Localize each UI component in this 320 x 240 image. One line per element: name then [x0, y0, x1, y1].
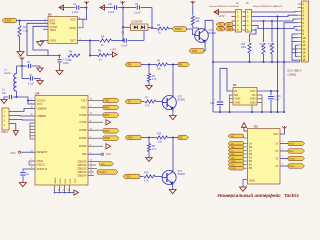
capacitor C11 [100, 7, 113, 9]
capacitor C3 bypass [22, 78, 29, 80]
svg-text:TEST: TEST [75, 177, 77, 183]
ground below R1 [17, 52, 24, 56]
wire VT3 emitter to ground [172, 185, 174, 190]
resistor R2 [157, 63, 168, 66]
net tag CBUS0 [100, 162, 114, 166]
net tag row1 right [178, 62, 190, 67]
wire D5 3Y stub [280, 158, 288, 160]
svg-text:R1: R1 [23, 25, 27, 29]
net tag 4Y [288, 164, 305, 168]
wire X2.9-16 trunk [292, 33, 298, 35]
wire R2 to node [168, 64, 179, 66]
diode D2a [134, 25, 138, 29]
svg-text:DSR: DSR [104, 136, 110, 140]
resistor R14 [271, 21, 273, 42]
wire J5.4 to mid rail [252, 26, 298, 29]
svg-text:D1: D1 [48, 13, 52, 17]
power +17V arrow right [112, 52, 117, 57]
net tag RTS [103, 113, 119, 118]
wire J5.5 stub [252, 29, 257, 31]
net arrow DCD [106, 144, 111, 149]
wire R11 to VT1 collector [193, 28, 199, 30]
connector X2 OBD box [302, 1, 309, 62]
svg-text:DCD#: DCD# [79, 144, 87, 148]
wire D4 bottom ground bus [54, 185, 56, 193]
svg-text:RTS: RTS [104, 113, 109, 117]
svg-text:GND: GND [250, 97, 256, 101]
svg-text:R10: R10 [241, 44, 246, 46]
capacitor C1 [13, 96, 17, 98]
wire J5.2 to X2.4 [252, 15, 298, 16]
net tag row1 mid [125, 62, 141, 67]
capacitor C12 electrolytic [219, 68, 221, 101]
diode pair D2 BAT54 box [131, 24, 149, 31]
svg-text:TXEN: TXEN [175, 27, 182, 31]
net tag 1Y [288, 141, 305, 145]
svg-text:IN: IN [235, 89, 238, 93]
wire D1 THR loop [27, 23, 60, 55]
resistor R6 on OUT line [90, 40, 99, 42]
wire D1 TRIG stub [43, 28, 48, 30]
svg-text:PWREN: PWREN [98, 172, 107, 174]
svg-text:2.2k: 2.2k [23, 29, 29, 33]
svg-text:OUT: OUT [70, 39, 76, 43]
svg-text:CBUS0: CBUS0 [77, 159, 87, 163]
svg-text:1B: 1B [249, 145, 252, 149]
capacitor C13 electrolytic [270, 91, 272, 95]
wire row2 to R15 [141, 137, 157, 139]
net tag K-line drive [169, 28, 173, 30]
svg-text:1: 1 [31, 99, 32, 101]
svg-text:TxD: TxD [104, 99, 109, 103]
svg-text:GND: GND [70, 178, 72, 183]
wire rail D horizontal [213, 111, 284, 113]
net arrow at C11 [100, 5, 105, 10]
ground at VT2 emitter [170, 116, 177, 120]
svg-text:4.7k: 4.7k [144, 180, 149, 183]
svg-text:VCC: VCC [70, 18, 76, 22]
svg-text:DISC: DISC [69, 26, 76, 30]
svg-text:USB-1: USB-1 [1, 132, 8, 134]
power VCC at L1 [20, 57, 24, 61]
svg-text:3: 3 [31, 103, 32, 105]
net arrow shield float [13, 131, 18, 136]
svg-text:GND: GND [249, 179, 255, 183]
wire C6 down to R9 line [151, 8, 153, 29]
IC D4 FT232 box [35, 96, 88, 186]
IC D3 regulator box [233, 88, 257, 106]
svg-text:CBUS4: CBUS4 [77, 173, 87, 177]
node L1 bottom [15, 96, 17, 98]
svg-text:TX2O: TX2O [289, 159, 295, 161]
transistor VT3 [162, 170, 176, 185]
svg-text:TXD: TXD [81, 98, 87, 102]
wire D3 OUT to node [257, 90, 278, 92]
wire VCC node down to D2 anode [122, 8, 124, 41]
svg-text:DTR: DTR [104, 129, 109, 133]
wire branch x284 down [283, 23, 285, 62]
svg-text:GND: GND [50, 39, 56, 43]
ground right of C5 [37, 68, 43, 72]
svg-text:5x5mm PBPS05-17-PGOS-RC: 5x5mm PBPS05-17-PGOS-RC [209, 6, 240, 8]
svg-text:VCC: VCC [106, 153, 111, 156]
svg-text:(J1962): (J1962) [288, 73, 297, 77]
resistor R13 [144, 175, 155, 178]
svg-text:2A: 2A [249, 148, 252, 152]
svg-text:0.1uF: 0.1uF [121, 45, 128, 48]
net tag CBUS2 [97, 170, 118, 174]
svg-text:D4: D4 [36, 91, 40, 95]
power VCC at D5 [280, 131, 285, 135]
svg-text:RX2: RX2 [128, 136, 134, 140]
svg-text:VCC: VCC [273, 132, 279, 136]
wire D4 RXD stub [88, 107, 103, 109]
svg-text:R13: R13 [144, 172, 149, 175]
resistor R1 [19, 21, 21, 26]
svg-text:4nF: 4nF [2, 93, 7, 95]
svg-text:TXD: TXD [192, 49, 197, 53]
wire D2 anode stub [123, 26, 131, 28]
svg-text:100k: 100k [241, 47, 247, 49]
svg-text:13: 13 [302, 47, 305, 51]
svg-text:1.2u: 1.2u [275, 98, 280, 101]
wire row1 to R2 [141, 64, 157, 66]
wire branch x284 to rail D [283, 62, 285, 112]
net tag D5 in0 [228, 134, 244, 138]
power VCC at C11 node [120, 1, 124, 5]
svg-text:RX2O: RX2O [289, 166, 295, 168]
svg-text:RX: RX [128, 63, 132, 67]
wire D4 CTS stub [88, 121, 103, 123]
svg-text:C12: C12 [210, 102, 215, 105]
connector X1 USB box [2, 108, 9, 130]
net tag VT3 base [123, 174, 140, 179]
svg-text:21: 21 [63, 190, 65, 192]
capacitor C4 [59, 7, 76, 9]
svg-text:2Y: 2Y [275, 149, 278, 153]
wire D3 bottom gnd to rail D [251, 105, 253, 112]
svg-text:VCC: VCC [18, 56, 23, 58]
svg-text:EN: EN [231, 136, 234, 138]
wire X1.4 shield to float [9, 124, 16, 131]
wire D4 DTR stub [88, 129, 103, 131]
wire R15 to node [168, 137, 179, 139]
wire CBUS2 stub [88, 168, 97, 170]
svg-text:D3: D3 [233, 83, 237, 87]
svg-text:7: 7 [282, 156, 283, 158]
wire CBUS1 stub [88, 164, 96, 166]
svg-text:4Y: 4Y [275, 164, 278, 168]
connector J1 pin stubs [228, 11, 236, 13]
svg-text:3A: 3A [249, 156, 252, 160]
wire D3 left GND tie [230, 95, 234, 112]
svg-text:5: 5 [282, 149, 283, 151]
wire VT1 collector up and right [205, 20, 213, 62]
svg-text:16: 16 [31, 114, 33, 116]
svg-text:15: 15 [302, 54, 305, 58]
net tag row2 right [178, 135, 189, 140]
svg-text:18: 18 [58, 190, 60, 192]
svg-text:+17V: +17V [110, 48, 116, 52]
wire L1 to D4 VCCIO [17, 97, 36, 104]
node VCC-D2 [122, 6, 124, 8]
svg-text:4A: 4A [249, 163, 252, 167]
svg-text:16: 16 [302, 58, 305, 62]
net tag 3Y [288, 156, 305, 160]
capacitor C6 [123, 7, 136, 9]
IC D1 NE555 box [48, 17, 78, 44]
svg-text:Tactrix: Tactrix [284, 193, 299, 198]
svg-text:LED: LED [101, 164, 106, 166]
resistor R15 [157, 136, 168, 139]
svg-text:TRIG: TRIG [50, 28, 57, 32]
svg-text:2B: 2B [249, 152, 252, 156]
svg-text:BC846: BC846 [178, 99, 186, 102]
svg-text:R15: R15 [157, 133, 162, 136]
wire OSCI OSCO stubs [29, 160, 35, 162]
svg-text:4.7k: 4.7k [145, 105, 150, 108]
resistor R3 pulldown [148, 65, 150, 74]
svg-text:VCC: VCC [11, 152, 16, 155]
svg-text:USBDM: USBDM [37, 106, 48, 110]
svg-text:12: 12 [302, 43, 305, 47]
transistor VT2 [162, 95, 176, 110]
wire D4 RI stub [88, 153, 101, 155]
svg-text:OUT: OUT [250, 89, 256, 93]
wire D3 right GND tie [257, 95, 262, 112]
wire X2.6 branch [284, 22, 298, 24]
wire D5 input stubs [244, 142, 248, 144]
svg-text:VCCIO: VCCIO [37, 98, 46, 102]
wire D5 2Y stub [280, 150, 288, 152]
wire VCC stem down [21, 62, 23, 79]
wire branch x277 down [277, 17, 279, 63]
net tag RXD [103, 105, 119, 110]
capacitor C5 bypass [22, 65, 27, 67]
svg-text:2.2uF: 2.2uF [72, 11, 79, 14]
power VCC at D1 [84, 1, 88, 5]
svg-text:D5: D5 [254, 124, 258, 128]
svg-text:GND: GND [235, 100, 241, 104]
net tag at VT1 emitter [189, 49, 204, 54]
svg-text:C11: C11 [108, 3, 113, 6]
wire D1 CVOLT loop [33, 26, 48, 55]
svg-text:9: 9 [282, 164, 283, 166]
svg-text:RX: RX [227, 24, 231, 26]
transistor VT1 [195, 28, 209, 43]
svg-text:Ferrite: Ferrite [4, 72, 12, 75]
power VCC above R11 [191, 1, 195, 5]
net tags D5 inputs [228, 142, 244, 146]
wire C9 line up to D2 pin 3 [143, 31, 145, 41]
net tag 2Y [288, 149, 305, 153]
wire D4 NC tie bar [29, 123, 31, 139]
svg-text:+17V: +17V [219, 15, 225, 18]
net arrow at D4 ground bus [74, 190, 79, 195]
svg-text:TX: TX [128, 100, 132, 104]
svg-text:RX2: RX2 [227, 29, 232, 31]
wire tag to R13 [140, 176, 144, 178]
wire VT1 emitter to tag [204, 42, 205, 51]
svg-text:TX: TX [219, 24, 222, 26]
net tag row VT2 base [125, 99, 141, 104]
net arrow at C4 [59, 5, 64, 10]
svg-text:RX: RX [179, 138, 183, 140]
svg-text:1A: 1A [249, 141, 252, 145]
svg-text:RXD: RXD [81, 105, 87, 109]
svg-text:0.1uF: 0.1uF [134, 12, 141, 15]
net tag row2 mid [125, 135, 141, 140]
svg-text:11: 11 [302, 40, 305, 44]
capacitor C10 electrolytic [58, 54, 60, 56]
ground at D5 GND [243, 180, 247, 188]
resistor R12 [263, 21, 265, 42]
svg-text:TX2: TX2 [219, 29, 224, 31]
svg-text:10uF: 10uF [63, 62, 69, 65]
wire TOUT to D1 RST [17, 20, 49, 22]
resistor R5 [90, 55, 97, 57]
resistor R9 [158, 27, 169, 30]
svg-text:2.2uF: 2.2uF [108, 11, 115, 14]
capacitor C2 at 3V3OUT [23, 169, 35, 172]
svg-text:4: 4 [45, 19, 46, 21]
net tag TOUT [2, 18, 17, 23]
svg-text:GND: GND [65, 178, 67, 183]
svg-text:5x5mm PBPS05-17-PAES-RC: 5x5mm PBPS05-17-PAES-RC [253, 5, 283, 8]
wire CBUS4 stub [88, 175, 94, 177]
net arrow CTS [106, 120, 111, 125]
svg-text:DSR#: DSR# [79, 136, 87, 140]
ground at D1 GND [37, 42, 44, 46]
svg-text:RXO: RXO [289, 151, 294, 153]
svg-text:AGND: AGND [54, 177, 57, 184]
wire VCC to D1 VCC pin [85, 6, 87, 8]
svg-text:TX2: TX2 [126, 175, 131, 179]
wire branch x277 to rail D [277, 62, 279, 112]
svg-text:3Y: 3Y [275, 157, 278, 161]
wire VT2 emitter to ground [172, 110, 174, 116]
wire D4 DSR stub [88, 137, 103, 139]
svg-text:CBUS2: CBUS2 [77, 166, 87, 170]
svg-text:RTS#: RTS# [80, 113, 87, 117]
ground below R3 [146, 86, 153, 90]
svg-text:3B: 3B [249, 159, 252, 163]
wire tag to R7 [141, 101, 145, 103]
connector J5 pin stubs [243, 11, 246, 13]
wire D1 OUT to node [78, 40, 91, 42]
resistor R7 [145, 100, 156, 103]
svg-text:RI#: RI# [82, 152, 87, 156]
IC D5 buffer box [247, 129, 280, 185]
svg-text:RX: RX [179, 65, 183, 67]
svg-text:GND: GND [250, 100, 256, 104]
svg-text:BC846: BC846 [209, 32, 217, 35]
wire D5 1Y stub [280, 143, 288, 145]
wire X2.8 stub link [296, 29, 298, 31]
diode D2b [141, 25, 145, 29]
wire node OUT down to THR rail [89, 41, 91, 56]
capacitor C9 [122, 39, 124, 41]
svg-text:CBUS1: CBUS1 [77, 163, 87, 167]
wire D5 4Y stub [280, 165, 288, 167]
svg-text:Универсальный интерфейс: Универсальный интерфейс [217, 192, 281, 198]
svg-text:TXO: TXO [289, 144, 294, 146]
wire B from corner to D3 IN [220, 68, 233, 91]
wire CBUS3 stub [88, 171, 94, 173]
svg-text:7: 7 [53, 190, 54, 192]
resistor R4 [68, 54, 80, 57]
svg-text:CBUS3: CBUS3 [77, 170, 87, 174]
svg-text:D2 BAT54: D2 BAT54 [132, 21, 144, 24]
svg-text:RX2E: RX2E [231, 168, 237, 170]
wire rail A horizontal [213, 60, 300, 62]
svg-text:VCC: VCC [37, 102, 43, 106]
wire D1 DISC stub [78, 19, 84, 28]
resistor R10 [249, 34, 251, 42]
wire node down to VT3 collector [172, 138, 174, 172]
wire X1.2 to D4 USBDP [9, 115, 35, 118]
wire X1.1 to D4 USBDM [9, 109, 35, 112]
resistor R11 [192, 5, 194, 15]
net tag pair row 1 at J1 [216, 22, 225, 26]
svg-text:DTR#: DTR# [79, 128, 87, 132]
ground below C2 [19, 183, 26, 187]
wire J5.1 to X2.3 [252, 11, 298, 14]
wire tag to VT1 base [187, 29, 196, 35]
svg-text:1Y: 1Y [275, 142, 278, 146]
svg-text:OSCI: OSCI [37, 159, 44, 163]
net tag pair row 2 at J1 [216, 27, 225, 31]
svg-text:RxD: RxD [104, 106, 109, 110]
ground right of C3 [37, 81, 43, 85]
svg-text:BC846: BC846 [178, 173, 186, 176]
resistor R8 pulldown [148, 138, 150, 144]
svg-text:EN: EN [235, 93, 239, 97]
svg-text:26: 26 [68, 190, 70, 192]
svg-text:CTS#: CTS# [79, 120, 87, 124]
net tag DSR [103, 136, 119, 141]
svg-text:TOUT: TOUT [5, 19, 12, 23]
svg-text:14: 14 [302, 51, 305, 55]
svg-text:USBDP: USBDP [37, 114, 47, 118]
net arrow at D5 enable [242, 123, 247, 128]
svg-text:GND: GND [60, 178, 62, 183]
svg-text:RESET#: RESET# [37, 150, 48, 154]
wire D1 GND stub [40, 41, 48, 42]
ground below C10 [56, 71, 63, 75]
wire RESET# stub [21, 151, 35, 153]
inductor L1 [17, 65, 23, 67]
wire X2.12 branch down [296, 44, 298, 46]
svg-text:3: 3 [282, 141, 283, 143]
svg-text:NC: NC [252, 93, 256, 97]
wire D4 TXD stub [88, 100, 103, 102]
svg-text:10: 10 [302, 36, 305, 40]
net tag DTR [103, 129, 119, 134]
net tag TXD [103, 98, 119, 103]
wire node down to VT2 collector [172, 65, 174, 97]
wire X1.3 to D4 [9, 119, 35, 122]
wire D4 RTS stub [88, 114, 103, 116]
svg-text:GND: GND [235, 97, 241, 101]
svg-text:OSCO: OSCO [37, 163, 45, 167]
ground at VT3 emitter [169, 190, 176, 194]
svg-text:0.1uF: 0.1uF [28, 84, 34, 86]
wire D2 cathode to R9 [148, 27, 157, 28]
svg-text:DLC OBD-II: DLC OBD-II [288, 69, 302, 73]
wire D4 DCD stub [88, 145, 103, 147]
net arrow +17V at J1 [214, 10, 219, 15]
